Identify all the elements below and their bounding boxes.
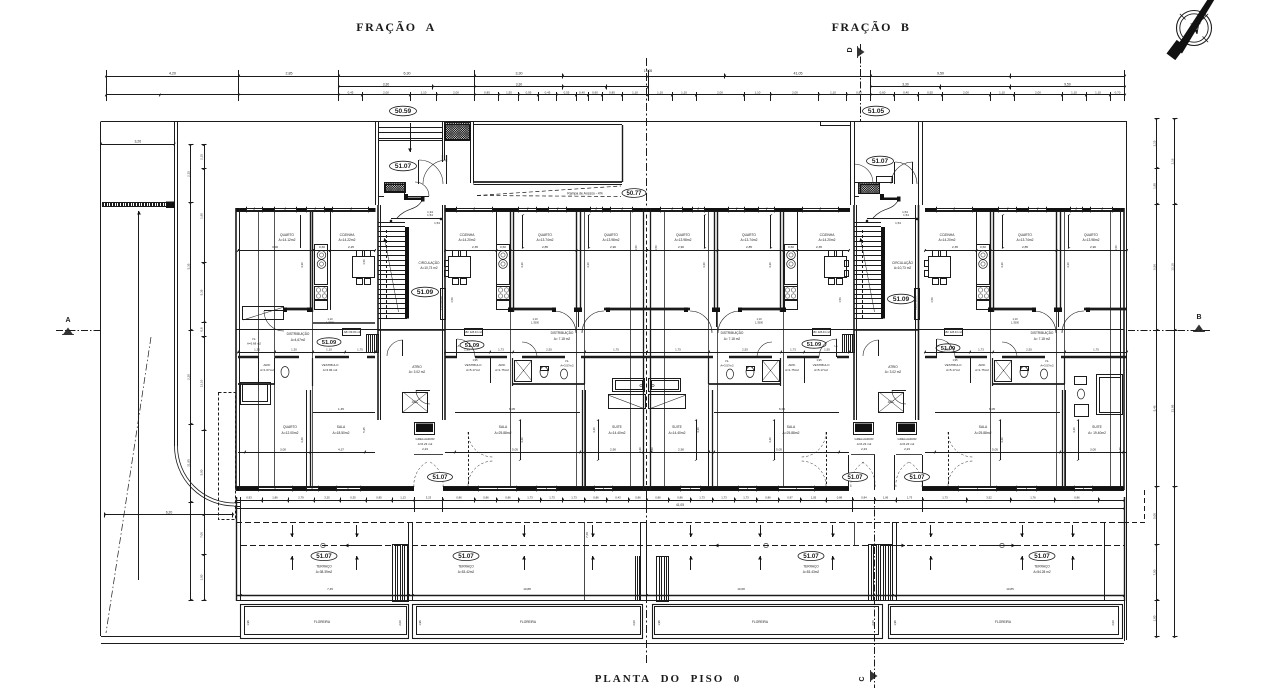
svg-text:1,73: 1,73: [721, 495, 727, 499]
svg-text:13,10: 13,10: [1170, 263, 1174, 271]
svg-text:1,10: 1,10: [1012, 317, 1018, 321]
svg-text:4,40: 4,40: [1072, 427, 1076, 433]
svg-text:A=5.17m2: A=5.17m2: [814, 368, 828, 372]
svg-text:I.S.: I.S.: [252, 337, 257, 341]
svg-text:2,55: 2,55: [1026, 348, 1032, 352]
svg-text:1,3500: 1,3500: [326, 321, 334, 325]
svg-text:QUARTO: QUARTO: [283, 425, 297, 429]
svg-text:A=5.17m2: A=5.17m2: [946, 368, 960, 372]
svg-text:0,86: 0,86: [635, 495, 641, 499]
svg-text:2,00: 2,00: [792, 90, 798, 94]
svg-text:0,43: 0,43: [615, 495, 621, 499]
svg-text:QUARTO: QUARTO: [538, 233, 552, 237]
svg-text:A=13.98m2: A=13.98m2: [1083, 238, 1100, 242]
svg-text:5,56: 5,56: [1152, 264, 1156, 270]
svg-text:1,3500: 1,3500: [531, 321, 539, 325]
svg-text:51.07: 51.07: [432, 475, 448, 481]
svg-text:A=25.88m2: A=25.88m2: [783, 431, 800, 435]
svg-text:0,86: 0,86: [677, 495, 683, 499]
svg-text:A=14.40m2: A=14.40m2: [669, 431, 686, 435]
svg-text:1,3500: 1,3500: [755, 321, 763, 325]
svg-text:5,35: 5,35: [186, 263, 190, 269]
svg-text:0,60: 0,60: [788, 245, 794, 249]
svg-text:1,73: 1,73: [978, 348, 984, 352]
svg-text:A= 19.40m2: A= 19.40m2: [1088, 431, 1106, 435]
svg-text:0,40: 0,40: [903, 90, 909, 94]
svg-text:ARR.: ARR.: [978, 363, 985, 367]
svg-text:0,86: 0,86: [483, 495, 489, 499]
svg-text:1,45: 1,45: [338, 407, 344, 411]
svg-text:51.09: 51.09: [417, 289, 434, 296]
svg-text:TERRAÇO: TERRAÇO: [803, 565, 819, 569]
svg-text:1,96: 1,96: [418, 620, 422, 626]
svg-text:1,75: 1,75: [357, 348, 363, 352]
svg-text:2,90: 2,90: [610, 245, 616, 249]
svg-text:1,10: 1,10: [632, 90, 638, 94]
svg-text:0,85: 0,85: [484, 90, 490, 94]
svg-text:1,73: 1,73: [571, 495, 577, 499]
svg-text:A=5.17m2: A=5.17m2: [466, 368, 480, 372]
svg-text:7,60: 7,60: [585, 532, 589, 538]
svg-text:51.09: 51.09: [807, 342, 822, 348]
svg-text:SUITE: SUITE: [1092, 425, 1103, 429]
svg-text:QUARTO: QUARTO: [604, 233, 618, 237]
svg-text:51.07: 51.07: [803, 553, 819, 560]
svg-text:GRELHADOR: GRELHADOR: [897, 437, 917, 441]
svg-text:FLOREIRA: FLOREIRA: [520, 620, 537, 624]
svg-text:AB= 228.43 m2: AB= 228.43 m2: [812, 330, 831, 334]
svg-text:QUARTO: QUARTO: [280, 233, 294, 237]
svg-text:QUARTO: QUARTO: [742, 233, 756, 237]
svg-text:1,50: 1,50: [450, 297, 454, 303]
svg-text:1,34: 1,34: [427, 210, 433, 214]
svg-text:4,37: 4,37: [338, 448, 344, 452]
svg-text:QUARTO: QUARTO: [676, 233, 690, 237]
svg-text:1,95: 1,95: [472, 358, 478, 362]
svg-text:5,00: 5,00: [199, 469, 203, 475]
svg-text:A= 7.18 m2: A= 7.18 m2: [724, 337, 741, 341]
svg-text:2,16: 2,16: [1170, 158, 1174, 164]
svg-text:1,95: 1,95: [199, 213, 203, 219]
svg-text:2,25: 2,25: [348, 245, 354, 249]
svg-text:2,00: 2,00: [453, 90, 459, 94]
svg-text:4,30: 4,30: [768, 262, 772, 268]
svg-text:ASC: ASC: [888, 400, 895, 404]
svg-text:2,15: 2,15: [1152, 140, 1156, 146]
svg-text:1,50: 1,50: [634, 245, 638, 251]
svg-text:2,00: 2,00: [1111, 620, 1115, 626]
svg-text:1,73: 1,73: [498, 348, 504, 352]
svg-text:2,90: 2,90: [678, 245, 684, 249]
svg-text:0,85: 0,85: [376, 495, 382, 499]
svg-text:FRAÇÃO A: FRAÇÃO A: [356, 20, 436, 34]
svg-text:0,8: 0,8: [199, 327, 203, 332]
svg-text:I.S.: I.S.: [1045, 359, 1050, 363]
svg-text:4,40: 4,40: [768, 437, 772, 443]
svg-text:DISTRIBUIÇÃO: DISTRIBUIÇÃO: [551, 330, 574, 335]
svg-text:2,55: 2,55: [742, 348, 748, 352]
svg-text:A=54.28 m2: A=54.28 m2: [1033, 570, 1051, 574]
svg-text:A=1.67m2: A=1.67m2: [260, 368, 274, 372]
svg-text:DISTRIBUIÇÃO: DISTRIBUIÇÃO: [1031, 330, 1054, 335]
svg-text:0,93: 0,93: [246, 495, 252, 499]
svg-text:1,95: 1,95: [952, 358, 958, 362]
svg-text:0,86: 0,86: [837, 495, 843, 499]
svg-text:10,85: 10,85: [1006, 587, 1014, 591]
svg-text:51.07: 51.07: [458, 553, 474, 560]
svg-text:2,35: 2,35: [472, 245, 478, 249]
svg-text:AB= 228.43 m2: AB= 228.43 m2: [464, 330, 483, 334]
svg-text:A=14.40m2: A=14.40m2: [609, 431, 626, 435]
svg-text:PLANTA DO PISO 0: PLANTA DO PISO 0: [595, 673, 742, 685]
svg-text:A=13.74m2: A=13.74m2: [1017, 238, 1034, 242]
svg-text:1,54: 1,54: [895, 221, 901, 225]
svg-text:GRELHADOR: GRELHADOR: [854, 437, 874, 441]
svg-text:A=6.23 m2: A=6.23 m2: [857, 442, 872, 446]
svg-text:1,75: 1,75: [675, 348, 681, 352]
svg-text:A=10,73 m2: A=10,73 m2: [894, 266, 912, 270]
svg-text:I.S.: I.S.: [725, 359, 730, 363]
svg-text:2,35: 2,35: [952, 245, 958, 249]
svg-text:0,60: 0,60: [980, 245, 986, 249]
svg-text:ATRIO: ATRIO: [412, 365, 422, 369]
svg-text:10,68: 10,68: [737, 587, 745, 591]
svg-text:A= 3.02 m2: A= 3.02 m2: [409, 370, 426, 374]
svg-text:0,60: 0,60: [319, 245, 325, 249]
svg-text:1,54: 1,54: [434, 221, 440, 225]
svg-text:51.09: 51.09: [322, 340, 337, 346]
svg-text:1,10: 1,10: [327, 317, 333, 321]
svg-text:ASC: ASC: [412, 400, 419, 404]
svg-text:COZINHA: COZINHA: [460, 233, 476, 237]
svg-text:1,13: 1,13: [400, 495, 406, 499]
svg-text:VESTIBULO: VESTIBULO: [465, 363, 483, 367]
svg-text:6,05: 6,05: [779, 407, 785, 411]
svg-text:21,95: 21,95: [186, 459, 190, 467]
svg-text:1,50: 1,50: [654, 245, 658, 251]
svg-text:0,86: 0,86: [456, 495, 462, 499]
svg-text:A=6.23 m2: A=6.23 m2: [900, 442, 915, 446]
svg-text:0,60: 0,60: [592, 90, 598, 94]
svg-text:2,90: 2,90: [1090, 245, 1096, 249]
svg-text:COZINHA: COZINHA: [820, 233, 836, 237]
svg-text:GRELHADOR: GRELHADOR: [415, 437, 435, 441]
svg-text:1,00: 1,00: [1152, 615, 1156, 621]
svg-text:6,30: 6,30: [404, 71, 411, 75]
svg-text:0,55: 0,55: [564, 90, 570, 94]
svg-text:3,40: 3,40: [638, 447, 642, 453]
svg-text:0,86: 0,86: [765, 495, 771, 499]
svg-text:3,26: 3,26: [134, 139, 141, 143]
svg-text:4,30: 4,30: [702, 262, 706, 268]
svg-text:AB= 228.43 m2: AB= 228.43 m2: [944, 330, 963, 334]
svg-text:A=13.74m2: A=13.74m2: [741, 238, 758, 242]
svg-text:1,10: 1,10: [755, 90, 761, 94]
svg-text:VESTIBULO: VESTIBULO: [322, 363, 340, 367]
svg-text:2,00: 2,00: [963, 90, 969, 94]
svg-text:A=5.68 m2: A=5.68 m2: [247, 342, 261, 346]
svg-text:5,46: 5,46: [1152, 405, 1156, 411]
svg-text:0,97: 0,97: [787, 495, 793, 499]
svg-text:2,00: 2,00: [398, 620, 402, 626]
svg-text:SUITE: SUITE: [612, 425, 623, 429]
svg-text:51.07: 51.07: [909, 475, 925, 481]
svg-text:A=38.39m2: A=38.39m2: [316, 570, 333, 574]
svg-text:10,88: 10,88: [523, 587, 531, 591]
svg-text:5,05: 5,05: [512, 448, 518, 452]
svg-text:COZINHA: COZINHA: [940, 233, 956, 237]
svg-text:FLOREIRA: FLOREIRA: [995, 620, 1012, 624]
svg-text:2,85: 2,85: [542, 245, 548, 249]
svg-text:50.77: 50.77: [626, 191, 642, 197]
svg-text:D: D: [847, 47, 854, 52]
svg-text:TERRAÇO: TERRAÇO: [316, 565, 332, 569]
svg-text:0,55: 0,55: [927, 90, 933, 94]
svg-text:A= 7.18 m2: A= 7.18 m2: [1034, 337, 1051, 341]
svg-text:A=12.00m2: A=12.00m2: [282, 431, 299, 435]
svg-text:A=4,67m2: A=4,67m2: [291, 338, 306, 342]
svg-text:21,95: 21,95: [1170, 404, 1174, 412]
svg-text:41,05: 41,05: [794, 71, 803, 75]
svg-text:3,30: 3,30: [516, 82, 523, 86]
svg-text:4,20: 4,20: [169, 71, 176, 75]
svg-text:5,35: 5,35: [199, 289, 203, 295]
svg-text:FLOREIRA: FLOREIRA: [314, 620, 331, 624]
svg-text:A=6.23 m2: A=6.23 m2: [418, 442, 433, 446]
svg-text:0,45: 0,45: [545, 90, 551, 94]
svg-text:5,45: 5,45: [362, 427, 366, 433]
svg-text:A=14.20m2: A=14.20m2: [459, 238, 476, 242]
svg-text:COZINHA: COZINHA: [340, 233, 356, 237]
svg-text:SALA: SALA: [499, 425, 508, 429]
svg-text:9,50: 9,50: [937, 71, 944, 75]
svg-text:0,35: 0,35: [350, 495, 356, 499]
svg-text:4,30: 4,30: [520, 262, 524, 268]
svg-text:A=53.43m2: A=53.43m2: [803, 570, 820, 574]
svg-text:1,76: 1,76: [1030, 495, 1036, 499]
svg-text:0,86: 0,86: [505, 495, 511, 499]
svg-text:A=1.75m2: A=1.75m2: [495, 368, 509, 372]
svg-text:QUARTO: QUARTO: [1018, 233, 1032, 237]
svg-text:4,30: 4,30: [1066, 262, 1070, 268]
svg-text:1,55: 1,55: [506, 90, 512, 94]
svg-text:A: A: [65, 317, 70, 324]
svg-text:1,73: 1,73: [549, 495, 555, 499]
svg-text:1,54: 1,54: [902, 210, 908, 214]
svg-text:CIRCULAÇÃO: CIRCULAÇÃO: [419, 260, 440, 265]
svg-text:6,20: 6,20: [166, 510, 173, 514]
svg-text:3,40: 3,40: [300, 437, 304, 443]
svg-text:N: N: [1188, 21, 1201, 38]
svg-text:A=3.96 m2: A=3.96 m2: [323, 368, 338, 372]
svg-text:1,50: 1,50: [838, 297, 842, 303]
svg-text:SALA: SALA: [337, 425, 346, 429]
svg-text:2,00: 2,00: [871, 620, 875, 626]
svg-text:1,75: 1,75: [1093, 348, 1099, 352]
svg-text:51.07: 51.07: [1034, 553, 1050, 560]
svg-text:1,96: 1,96: [657, 620, 661, 626]
svg-text:13,10: 13,10: [199, 379, 203, 387]
svg-text:3,30: 3,30: [902, 82, 909, 86]
svg-text:A=18.50m2: A=18.50m2: [333, 431, 350, 435]
svg-text:51.09: 51.09: [893, 296, 910, 303]
svg-text:1,3500: 1,3500: [1011, 321, 1019, 325]
svg-text:FRAÇÃO B: FRAÇÃO B: [832, 20, 911, 34]
svg-text:1,00: 1,00: [199, 574, 203, 580]
svg-text:5,00: 5,00: [1152, 513, 1156, 519]
svg-text:4,30: 4,30: [300, 262, 304, 268]
svg-text:51.07: 51.07: [316, 553, 332, 560]
svg-text:A=14.20m2: A=14.20m2: [939, 238, 956, 242]
svg-text:1,50: 1,50: [362, 259, 366, 265]
svg-text:A=1.75m2: A=1.75m2: [975, 368, 989, 372]
svg-text:1,95: 1,95: [944, 348, 950, 352]
svg-text:1,73: 1,73: [743, 495, 749, 499]
svg-text:A= 3.02 m2: A= 3.02 m2: [885, 370, 902, 374]
svg-text:A= 7.18 m2: A= 7.18 m2: [554, 337, 571, 341]
svg-text:C: C: [859, 676, 866, 681]
svg-text:3,52: 3,52: [986, 495, 992, 499]
svg-text:0,85: 0,85: [856, 90, 862, 94]
svg-text:VESTIBULO: VESTIBULO: [813, 363, 831, 367]
svg-text:0,86: 0,86: [655, 495, 661, 499]
svg-text:51.07: 51.07: [847, 475, 863, 481]
svg-text:2,15: 2,15: [199, 154, 203, 160]
svg-text:1,10: 1,10: [1095, 90, 1101, 94]
svg-text:1,95: 1,95: [464, 348, 470, 352]
svg-text:2,90: 2,90: [678, 448, 684, 452]
svg-text:B: B: [1196, 314, 1201, 321]
svg-text:7,00: 7,00: [1152, 569, 1156, 575]
svg-text:1,05: 1,05: [811, 495, 817, 499]
svg-text:4,30: 4,30: [586, 262, 590, 268]
svg-text:6,05: 6,05: [989, 407, 995, 411]
svg-text:SUITE: SUITE: [672, 425, 683, 429]
svg-text:50.59: 50.59: [395, 108, 412, 115]
svg-text:0,70: 0,70: [1115, 90, 1121, 94]
svg-text:A=1.75m2: A=1.75m2: [785, 368, 799, 372]
svg-text:7,00: 7,00: [199, 532, 203, 538]
svg-text:A=13.98m2: A=13.98m2: [603, 238, 620, 242]
svg-text:Rampa de Acesso - 4%: Rampa de Acesso - 4%: [567, 192, 602, 196]
svg-text:SALA: SALA: [787, 425, 796, 429]
svg-text:DISTRIBUIÇÃO: DISTRIBUIÇÃO: [287, 331, 310, 336]
svg-text:A=3.57m2: A=3.57m2: [1040, 364, 1054, 368]
svg-text:ARR.: ARR.: [263, 363, 270, 367]
svg-text:SALA: SALA: [979, 425, 988, 429]
svg-text:1,86: 1,86: [272, 495, 278, 499]
svg-text:ARR.: ARR.: [788, 363, 795, 367]
svg-text:2,55: 2,55: [546, 348, 552, 352]
svg-text:3,30: 3,30: [516, 71, 523, 75]
svg-text:A=25.88m2: A=25.88m2: [495, 431, 512, 435]
svg-text:1,50: 1,50: [1114, 245, 1118, 251]
svg-text:0,45: 0,45: [348, 90, 354, 94]
svg-text:2,00: 2,00: [1035, 90, 1041, 94]
svg-text:2,85: 2,85: [1022, 245, 1028, 249]
svg-text:0,86: 0,86: [593, 495, 599, 499]
svg-text:1,10: 1,10: [999, 90, 1005, 94]
svg-text:1,06: 1,06: [883, 495, 889, 499]
svg-text:CIRCULAÇÃO: CIRCULAÇÃO: [892, 260, 913, 265]
svg-text:VESTIBULO: VESTIBULO: [945, 363, 963, 367]
svg-text:0,60: 0,60: [500, 245, 506, 249]
svg-text:QUARTO: QUARTO: [1084, 233, 1098, 237]
svg-text:0,84: 0,84: [861, 495, 867, 499]
svg-text:2,85: 2,85: [286, 71, 293, 75]
svg-text:51.05: 51.05: [868, 108, 885, 115]
svg-text:TERRAÇO: TERRAÇO: [458, 565, 474, 569]
svg-text:A=10,73 m2: A=10,73 m2: [420, 266, 438, 270]
svg-text:0,40: 0,40: [579, 90, 585, 94]
svg-text:DISTRIBUIÇÃO: DISTRIBUIÇÃO: [721, 330, 744, 335]
svg-text:2,00: 2,00: [383, 90, 389, 94]
svg-text:3,30: 3,30: [383, 82, 390, 86]
svg-text:4,40: 4,40: [592, 427, 596, 433]
svg-text:1,95: 1,95: [1152, 183, 1156, 189]
svg-text:ARR.: ARR.: [498, 363, 505, 367]
svg-text:2,00: 2,00: [632, 620, 636, 626]
svg-text:1,30: 1,30: [291, 348, 297, 352]
svg-text:TERRAÇO: TERRAÇO: [1034, 565, 1050, 569]
svg-text:7,45: 7,45: [327, 587, 333, 591]
svg-text:A=14.20m2: A=14.20m2: [819, 238, 836, 242]
svg-text:41,05: 41,05: [676, 503, 684, 507]
svg-text:2,23: 2,23: [861, 447, 867, 451]
svg-text:I.S.: I.S.: [565, 359, 570, 363]
svg-text:1,73: 1,73: [942, 495, 948, 499]
svg-text:2,90: 2,90: [610, 448, 616, 452]
svg-text:51.07: 51.07: [872, 158, 889, 165]
svg-text:51.07: 51.07: [395, 163, 412, 170]
svg-text:1,35: 1,35: [254, 348, 260, 352]
svg-text:1,73: 1,73: [699, 495, 705, 499]
svg-text:5,05: 5,05: [992, 448, 998, 452]
svg-text:A=14.12m2: A=14.12m2: [279, 238, 296, 242]
svg-text:A=53.42m2: A=53.42m2: [458, 570, 475, 574]
svg-text:1,96: 1,96: [893, 620, 897, 626]
svg-text:0,60: 0,60: [880, 90, 886, 94]
svg-text:9,50: 9,50: [1064, 82, 1071, 86]
svg-text:2,85: 2,85: [746, 245, 752, 249]
svg-text:A=13.74m2: A=13.74m2: [537, 238, 554, 242]
svg-text:A=13.98m2: A=13.98m2: [675, 238, 692, 242]
svg-text:3,00: 3,00: [272, 245, 278, 249]
svg-text:2,23: 2,23: [904, 447, 910, 451]
svg-text:0,86: 0,86: [1074, 495, 1080, 499]
svg-text:AB= 89.45 m2: AB= 89.45 m2: [344, 330, 361, 334]
svg-text:A=25.88m2: A=25.88m2: [975, 431, 992, 435]
svg-text:3,00: 3,00: [280, 448, 286, 452]
svg-text:3,23: 3,23: [426, 495, 432, 499]
svg-text:1,75: 1,75: [613, 348, 619, 352]
svg-text:3,00: 3,00: [1090, 448, 1096, 452]
svg-text:A=14.22m2: A=14.22m2: [339, 238, 356, 242]
svg-text:6,05: 6,05: [509, 407, 515, 411]
svg-text:1,10: 1,10: [532, 317, 538, 321]
svg-text:1,73: 1,73: [790, 348, 796, 352]
svg-text:2,23: 2,23: [422, 447, 428, 451]
svg-text:1,73: 1,73: [527, 495, 533, 499]
svg-text:3,25: 3,25: [324, 495, 330, 499]
svg-text:ATRIO: ATRIO: [888, 365, 898, 369]
svg-text:A=3.57m2: A=3.57m2: [720, 364, 734, 368]
svg-text:0,95: 0,95: [526, 90, 532, 94]
svg-text:0,85: 0,85: [609, 90, 615, 94]
svg-text:4,30: 4,30: [1000, 262, 1004, 268]
svg-text:2,00: 2,00: [717, 90, 723, 94]
svg-text:1,50: 1,50: [930, 297, 934, 303]
